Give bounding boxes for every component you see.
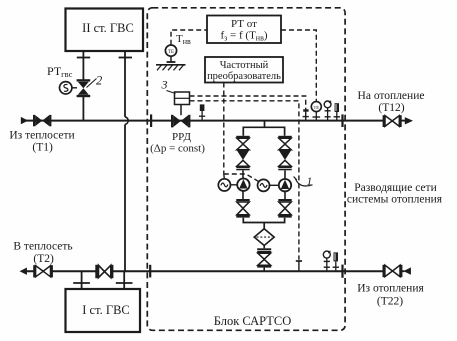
arrow outlet T12 (405, 117, 413, 124)
svg-text:(Т2): (Т2) (33, 253, 54, 265)
shutoff valve branch x243 top (236, 136, 249, 150)
pipe T2 return (lower) (26, 270, 405, 272)
svg-text:1: 1 (307, 176, 313, 188)
actuator of valve 3 (РРД) (175, 92, 190, 115)
manifold supply stub (264, 121, 266, 128)
arrow inlet T22 (403, 267, 411, 274)
control valve 2 (vertical) (77, 79, 91, 97)
arrow inlet T1 (21, 117, 28, 124)
label РТгвс (47, 64, 73, 79)
svg-text:В теплосеть: В теплосеть (13, 241, 72, 253)
sensor Тнв outdoor (165, 30, 207, 62)
thermometer on supply (334, 103, 340, 120)
svg-text:I ст. ГВС: I ст. ГВС (82, 303, 130, 317)
flange tick left (77, 57, 90, 59)
arrow outlet T2 (20, 268, 27, 275)
svg-text:системы отопления: системы отопления (347, 194, 443, 206)
thermowell after РРД (199, 104, 205, 120)
shutoff valve branch x285 bottom (278, 199, 291, 218)
box I ст. ГВС (66, 289, 141, 332)
svg-text:II ст. ГВС: II ст. ГВС (82, 21, 134, 35)
manifold bottom header (243, 218, 284, 223)
label 3 with leader (161, 78, 176, 94)
boundary tick return right (341, 265, 343, 278)
box Частотный преобразователь (205, 57, 283, 83)
svg-text:преобразователь: преобразователь (207, 71, 281, 82)
pump P1 (237, 179, 249, 191)
boundary tick supply left (150, 114, 152, 127)
impulse line upper tap (190, 96, 306, 109)
wire return stub to I GVS right (116, 271, 133, 289)
valve outlet T12 (383, 115, 402, 127)
signal РТ to T12 sensor (281, 30, 316, 101)
svg-text:ТЕ: ТЕ (313, 105, 319, 110)
motor M1 (218, 179, 237, 191)
flange tick right (119, 57, 132, 59)
pump P2 (279, 179, 291, 191)
manometer on return (323, 251, 330, 271)
svg-text:РТ от: РТ от (231, 18, 257, 30)
label Из теплосети (9, 130, 74, 154)
box РТ controller (207, 16, 281, 44)
manifold top header (243, 127, 284, 136)
wire pump stub x243 (242, 170, 244, 199)
svg-text:(Т22): (Т22) (377, 296, 403, 308)
label Блок САРТСО (214, 314, 292, 328)
wire return stub to I GVS left (73, 271, 90, 289)
label В теплосеть (13, 241, 72, 266)
svg-text:2: 2 (96, 74, 102, 88)
label 1 with leader (294, 176, 313, 188)
sensor circle РТгвс (59, 82, 77, 94)
svg-text:На отопление: На отопление (358, 90, 425, 102)
svg-text:Из теплосети: Из теплосети (9, 130, 74, 142)
valve РРД (171, 115, 190, 128)
valve outlet T2 (33, 265, 53, 277)
upper pressure tap (303, 109, 309, 121)
svg-text:Блок САРТСО: Блок САРТСО (214, 314, 292, 328)
pipe T1 supply (upper) (26, 120, 406, 122)
svg-text:Из отопления: Из отопления (357, 283, 424, 295)
boundary tick supply right (341, 114, 343, 127)
svg-text:Частотный: Частотный (220, 60, 269, 71)
motor M2 (258, 179, 279, 191)
wire pump stub x285 (284, 170, 286, 199)
label Разводящие сети (347, 182, 443, 206)
shutoff valve branch x285 top (278, 136, 291, 150)
svg-text:ТЕ: ТЕ (168, 50, 174, 55)
svg-text:3: 3 (161, 78, 168, 92)
wire left GVS drop (x=83) (82, 51, 84, 121)
svg-text:(Δр = const): (Δр = const) (150, 143, 205, 155)
label Тнв (176, 33, 191, 46)
check valve branch x243 (236, 150, 249, 170)
sensor TE on supply T12 (311, 102, 321, 121)
valve inlet T1 (33, 115, 51, 126)
shutoff valve branch x243 bottom (236, 199, 249, 218)
label На отопление (358, 90, 425, 114)
svg-text:Разводящие сети: Разводящие сети (354, 182, 436, 194)
impulse line lower tap (190, 101, 299, 260)
dashed enclosure Блок САРТСО (147, 8, 345, 331)
manometer on supply (324, 101, 331, 121)
boundary tick return left (149, 265, 151, 278)
wire right GVS drop (x=125) with hop over supply pipe (125, 51, 128, 271)
ground hatching (156, 65, 186, 71)
label РРД (150, 131, 205, 155)
lower pressure tap (296, 261, 302, 271)
check valve branch x285 (278, 150, 291, 170)
box II ст. ГВС (66, 9, 144, 52)
svg-text:(Т1): (Т1) (32, 142, 53, 154)
drain valve bottom (257, 248, 271, 271)
valve return bypass (95, 265, 113, 278)
label Из отопления (357, 283, 424, 308)
valve inlet T22 (383, 265, 403, 277)
signal frequency converter to motors (224, 83, 258, 182)
svg-text:РРД: РРД (172, 131, 191, 143)
strainer filter (254, 229, 274, 249)
thermometer on return (333, 252, 339, 271)
svg-text:(Т12): (Т12) (378, 102, 404, 114)
label 2 with leader (87, 74, 103, 88)
manifold drain stub (263, 223, 265, 229)
